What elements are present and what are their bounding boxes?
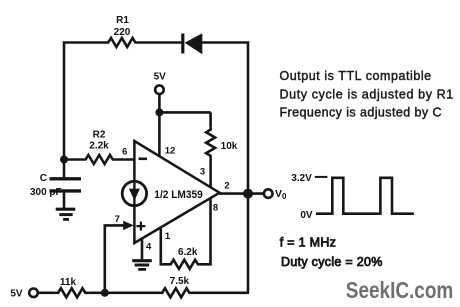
resistor 10k bbox=[206, 128, 215, 159]
diode D1 bbox=[183, 33, 203, 54]
junction 5V node bbox=[155, 108, 163, 116]
svg-text:3: 3 bbox=[200, 167, 205, 178]
svg-text:10k: 10k bbox=[221, 141, 238, 152]
resistor 11k bbox=[56, 288, 89, 297]
svg-text:5V: 5V bbox=[10, 289, 23, 300]
svg-text:1/2 LM359: 1/2 LM359 bbox=[154, 189, 203, 201]
svg-text:C: C bbox=[40, 173, 47, 184]
minus input mark bbox=[139, 158, 148, 161]
wire junction to R2 bbox=[64, 158, 83, 161]
svg-text:f = 1 MHz: f = 1 MHz bbox=[280, 236, 337, 250]
wire 5V terminal to junction bbox=[158, 94, 161, 112]
wire right vertical output node to bottom-right corner bbox=[247, 194, 250, 293]
wire pin 12 supply bbox=[158, 112, 161, 156]
node 5V terminal top bbox=[155, 85, 164, 94]
resistor 7.5k bbox=[160, 288, 192, 297]
svg-text:7.5k: 7.5k bbox=[170, 276, 190, 287]
resistor R1 bbox=[106, 38, 139, 47]
svg-text:6.2k: 6.2k bbox=[178, 247, 198, 258]
waveform square wave bbox=[316, 178, 414, 214]
svg-text:300 pF: 300 pF bbox=[30, 187, 62, 198]
wire diode to top-right corner and right vertical down to output node bbox=[202, 43, 248, 194]
wire 6.2k to pin 8 bbox=[201, 199, 211, 265]
svg-text:Output is TTL compatible: Output is TTL compatible bbox=[280, 69, 432, 83]
wire 7.5k to bottom-right corner bbox=[193, 291, 250, 294]
plus input mark bbox=[136, 222, 145, 231]
svg-text:Duty cycle is adjusted by R1: Duty cycle is adjusted by R1 bbox=[280, 87, 454, 101]
wire 11k to 7.5k bbox=[88, 291, 160, 294]
wire pin 1 down to 6.2k bbox=[161, 228, 169, 264]
wire junction to 10k branch bbox=[159, 111, 210, 114]
wire 10k to pin 3 bbox=[209, 158, 212, 187]
capacitor C bbox=[50, 160, 82, 209]
ground (capacitor) bbox=[56, 209, 76, 219]
op-amp U1 1/2 LM359 bbox=[134, 141, 219, 243]
svg-text:R1: R1 bbox=[116, 15, 129, 26]
svg-text:SeekIC.com: SeekIC.com bbox=[346, 277, 454, 303]
svg-text:Frequency is adjusted by C: Frequency is adjusted by C bbox=[280, 106, 442, 120]
wire 5V to 11k bbox=[38, 291, 56, 294]
junction output node bbox=[243, 189, 253, 199]
wire pin 7 from bottom rail bbox=[105, 225, 126, 292]
svg-text:1: 1 bbox=[165, 231, 171, 242]
wire top-left horizontal and left vertical bbox=[64, 43, 106, 161]
resistor 6.2k bbox=[169, 260, 201, 269]
svg-text:4: 4 bbox=[146, 242, 152, 253]
wire op-amp output to V0 terminal bbox=[219, 192, 264, 195]
svg-text:12: 12 bbox=[165, 146, 176, 157]
svg-text:Duty cycle = 20%: Duty cycle = 20% bbox=[281, 255, 383, 269]
svg-text:6: 6 bbox=[122, 147, 127, 158]
svg-text:R2: R2 bbox=[93, 130, 106, 141]
wire R2 to pin 6 bbox=[116, 158, 134, 161]
wire R1 to diode bbox=[139, 41, 183, 44]
svg-text:3.2V: 3.2V bbox=[291, 173, 312, 184]
svg-text:0V: 0V bbox=[300, 210, 313, 221]
junction bottom rail / pin 7 bbox=[101, 289, 109, 297]
arrowhead pin 7 bbox=[123, 221, 134, 230]
svg-text:11k: 11k bbox=[60, 277, 77, 288]
wire 10k top bbox=[209, 112, 212, 127]
svg-text:7: 7 bbox=[115, 214, 120, 225]
svg-text:8: 8 bbox=[213, 203, 218, 214]
ground (op-amp pin 4) bbox=[132, 261, 152, 270]
node V0 terminal bbox=[264, 189, 273, 198]
node 5V terminal bottom bbox=[29, 289, 38, 298]
level dash 3.2V bbox=[315, 176, 328, 178]
svg-text:220: 220 bbox=[114, 27, 131, 38]
current source inside op-amp bbox=[122, 181, 146, 205]
svg-text:2.2k: 2.2k bbox=[89, 141, 109, 152]
svg-text:5V: 5V bbox=[154, 72, 167, 83]
wire pin 4 to ground bbox=[141, 238, 144, 259]
resistor R2 bbox=[83, 155, 116, 164]
node junction R2/C bbox=[60, 156, 68, 164]
svg-text:2: 2 bbox=[224, 181, 229, 192]
